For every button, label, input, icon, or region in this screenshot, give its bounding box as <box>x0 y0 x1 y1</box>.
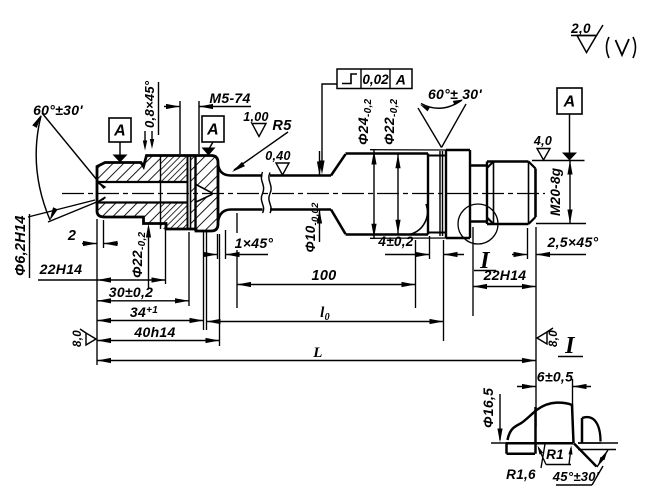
svg-text:A: A <box>563 94 576 111</box>
svg-text:6±0,5: 6±0,5 <box>537 369 573 385</box>
svg-text:30±0,2: 30±0,2 <box>109 284 154 300</box>
svg-text:100: 100 <box>311 268 336 284</box>
svg-text:22H14: 22H14 <box>39 261 83 277</box>
svg-text:8,0: 8,0 <box>72 330 84 347</box>
svg-text:40h14: 40h14 <box>133 324 175 340</box>
svg-text:0,40: 0,40 <box>265 149 291 163</box>
svg-text:L: L <box>312 345 322 361</box>
svg-text:M20-8g: M20-8g <box>548 167 563 216</box>
svg-text:0,8×45°: 0,8×45° <box>142 80 157 128</box>
svg-text:4,0: 4,0 <box>533 134 552 148</box>
svg-text:0,02: 0,02 <box>362 72 389 87</box>
svg-text:Φ6,2H14: Φ6,2H14 <box>13 215 29 276</box>
svg-text:8,0: 8,0 <box>548 330 560 347</box>
svg-text:I: I <box>564 333 576 359</box>
svg-text:R1,6: R1,6 <box>506 467 536 482</box>
svg-text:45°±30': 45°±30' <box>552 469 600 484</box>
svg-text:1×45°: 1×45° <box>235 235 274 251</box>
svg-text:M5-74: M5-74 <box>209 90 250 106</box>
svg-text:2: 2 <box>67 228 76 244</box>
svg-text:1,00: 1,00 <box>243 110 269 124</box>
svg-text:60°±30': 60°±30' <box>33 102 83 118</box>
svg-text:2,5×45°: 2,5×45° <box>547 234 599 250</box>
svg-text:R1: R1 <box>546 447 564 462</box>
svg-text:4±0,2: 4±0,2 <box>377 234 413 249</box>
svg-text:A: A <box>206 122 219 139</box>
svg-text:R5: R5 <box>272 118 292 134</box>
svg-text:A: A <box>113 123 126 140</box>
svg-text:60°± 30': 60°± 30' <box>428 86 482 102</box>
svg-text:Φ16,5: Φ16,5 <box>480 388 496 428</box>
svg-text:A: A <box>395 72 406 88</box>
svg-text:2,0: 2,0 <box>570 21 591 36</box>
